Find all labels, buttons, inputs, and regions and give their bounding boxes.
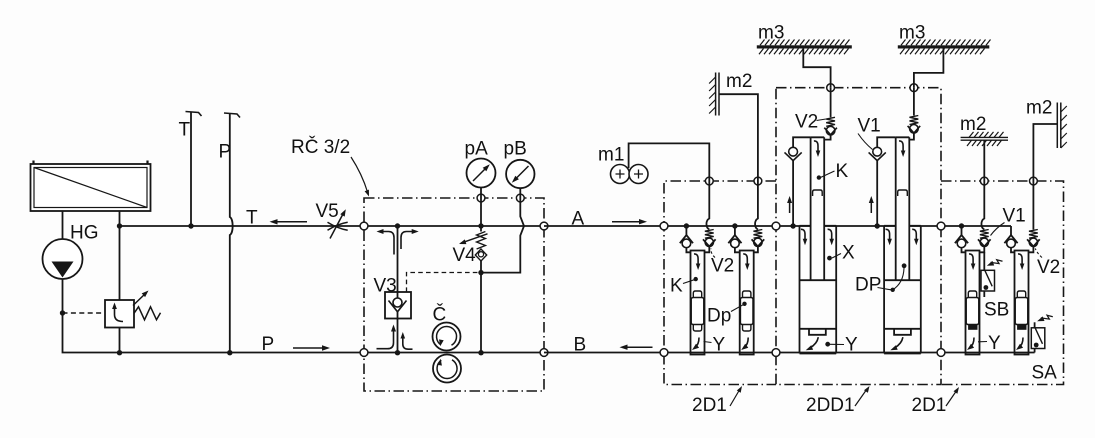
pump HG bbox=[43, 239, 83, 279]
svg-text:Y: Y bbox=[845, 335, 858, 356]
wire m3 #2 to port bbox=[914, 49, 944, 88]
flow elbow arrows (bottom pair) bbox=[377, 325, 413, 350]
check valve (plain) Dp cylinder bbox=[734, 226, 736, 235]
label X with leader bbox=[827, 243, 855, 264]
svg-text:2DD1: 2DD1 bbox=[806, 395, 855, 416]
flow arrow A (right) bbox=[612, 221, 640, 223]
svg-text:V2: V2 bbox=[795, 112, 818, 133]
check valve V2 (spring) K cylinder bbox=[706, 181, 709, 230]
label Y (2DD1) with leader bbox=[825, 335, 858, 356]
enclosure 2D1 (left) bbox=[664, 181, 776, 385]
pressure switch SB bbox=[981, 252, 1003, 297]
junction T riser bbox=[188, 223, 193, 228]
telescopic cylinder K/X (2DD1 left) bbox=[811, 137, 825, 280]
check valve (plain) 2DD1 left bbox=[785, 137, 811, 226]
cylinder K (2D1 left) bbox=[691, 251, 705, 355]
svg-text:X: X bbox=[842, 243, 855, 264]
label DP with leader bbox=[855, 263, 906, 295]
svg-text:2D1: 2D1 bbox=[912, 395, 947, 416]
svg-text:T: T bbox=[179, 120, 191, 141]
label K (2DD1) with leader bbox=[817, 161, 849, 182]
svg-text:RČ 3/2: RČ 3/2 bbox=[291, 136, 350, 158]
flow arrow up (2DD1 right) bbox=[870, 202, 872, 213]
cylinder Dp (2D1 left) bbox=[740, 251, 754, 355]
wall m3 #1 bbox=[757, 40, 852, 55]
junction T line start bbox=[117, 223, 122, 228]
T/A line through RČ block bbox=[364, 225, 544, 227]
label V1 (2D1 right) with leader bbox=[991, 206, 1026, 236]
label Y (2D1 right) with leader bbox=[978, 333, 1001, 354]
junction V4 bottom node bbox=[478, 270, 483, 275]
ports on enclosure edges bbox=[660, 222, 668, 230]
svg-text:V4: V4 bbox=[453, 245, 477, 266]
svg-text:Y: Y bbox=[713, 335, 726, 356]
label V2 (2D1 right) with leader bbox=[1035, 249, 1060, 279]
svg-text:DP: DP bbox=[855, 275, 881, 296]
relief valve bbox=[105, 291, 161, 353]
svg-text:SA: SA bbox=[1032, 363, 1058, 384]
wire m2 #4 to port bbox=[1033, 124, 1057, 181]
junction A (2DD1 left) bbox=[790, 223, 795, 228]
svg-text:V5: V5 bbox=[316, 201, 339, 222]
junction V4 top bbox=[478, 223, 483, 228]
svg-text:m1: m1 bbox=[598, 145, 624, 166]
enclosure 2DD1 bbox=[776, 88, 941, 385]
drive m1 (hand pump symbol) bbox=[611, 165, 649, 184]
flow arrow T (left) bbox=[276, 221, 307, 223]
check valve (spring) 2DD1 right bbox=[908, 88, 921, 140]
check valve V2 (spring) cyl 2 bbox=[1032, 181, 1034, 230]
junction P riser bbox=[227, 350, 232, 355]
flow arrow P (right) bbox=[293, 347, 323, 349]
label RČ 3/2 with leader bbox=[291, 136, 369, 197]
gauge pB (stem jogs over A line) bbox=[481, 160, 535, 273]
svg-text:P: P bbox=[262, 334, 275, 355]
svg-text:SB: SB bbox=[984, 300, 1009, 321]
svg-text:B: B bbox=[574, 335, 587, 356]
check valve V1 (plain) 2DD1 right bbox=[869, 137, 896, 226]
telescopic cylinder DP (2DD1 right) bbox=[896, 137, 910, 280]
cylinder 1 (2D1 right) bbox=[966, 251, 980, 355]
label 2D1 right with leader bbox=[912, 387, 960, 416]
P line (left) bbox=[105, 352, 364, 354]
junction A to check (Dp cyl) bbox=[732, 223, 737, 228]
ports RČ block bbox=[360, 222, 368, 230]
T line (left) bbox=[120, 225, 365, 227]
svg-text:Č: Č bbox=[433, 304, 447, 326]
label Y (2D1 left) with leader bbox=[704, 335, 726, 356]
pressure switch SA bbox=[1031, 315, 1053, 352]
svg-text:Y: Y bbox=[988, 333, 1001, 354]
flow arrow B (left) bbox=[626, 346, 653, 348]
gauge pA bbox=[467, 159, 496, 227]
enclosure 2D1 (right) bbox=[941, 181, 1064, 385]
throttle-check V4 bbox=[459, 226, 488, 273]
wire V4 node to B line bbox=[480, 273, 482, 353]
svg-text:2D1: 2D1 bbox=[692, 395, 727, 416]
wire tank to pump bbox=[62, 211, 64, 239]
svg-text:pB: pB bbox=[504, 139, 527, 160]
label K (2D1 left) with leader bbox=[670, 276, 698, 297]
wire V3 column bbox=[397, 226, 399, 292]
P/B line through RČ block bbox=[364, 352, 544, 354]
check valve V1 (spring) cyl 1 bbox=[981, 181, 984, 230]
wire m2 #3 to port bbox=[983, 140, 985, 181]
svg-text:Dp: Dp bbox=[707, 306, 731, 327]
wire tank to relief valve / T junction bbox=[119, 211, 121, 300]
enclosure RČ 3/2 (dash-dot) bbox=[364, 198, 544, 391]
check valve (spring) Dp cylinder bbox=[755, 181, 758, 230]
throttle V5 bbox=[328, 209, 348, 238]
wire m2 #1 to port bbox=[719, 94, 758, 181]
svg-text:V2: V2 bbox=[711, 256, 734, 277]
wire m3 #1 to port bbox=[803, 49, 830, 88]
check valve V3 bbox=[385, 292, 411, 319]
svg-text:m2: m2 bbox=[960, 114, 986, 135]
wall m2 #1 bbox=[709, 73, 719, 116]
pilot line (dashed) to relief valve bbox=[63, 312, 105, 314]
svg-text:V2: V2 bbox=[1037, 257, 1060, 278]
wall m2 #3 (horizontal) bbox=[961, 132, 1008, 146]
svg-text:K: K bbox=[836, 161, 849, 182]
B line bbox=[544, 352, 1035, 354]
check valve (plain) cyl 1 bbox=[961, 226, 963, 235]
flow arrow up (2DD1 left) bbox=[789, 202, 791, 213]
junction V4 column B bbox=[478, 350, 483, 355]
svg-text:T: T bbox=[246, 208, 258, 229]
label 2DD1 with leader bbox=[806, 386, 870, 416]
label Dp with leader bbox=[707, 302, 747, 327]
svg-text:m3: m3 bbox=[899, 23, 925, 44]
label V2 (2DD1) with leader bbox=[795, 112, 826, 133]
svg-text:V3: V3 bbox=[374, 276, 397, 297]
flow divider Č bbox=[433, 323, 462, 383]
junction V3 bottom bbox=[395, 350, 400, 355]
wire pump to P line bbox=[63, 279, 106, 353]
tank/reservoir bbox=[31, 161, 151, 212]
svg-text:pA: pA bbox=[465, 139, 489, 160]
P riser with plug (jog over T line) bbox=[224, 113, 240, 353]
junction A to check (K cyl) bbox=[684, 223, 689, 228]
junction pump drain bbox=[60, 310, 65, 315]
cylinder 2 (2D1 right) bbox=[1015, 251, 1029, 355]
svg-text:K: K bbox=[670, 276, 683, 297]
svg-text:m2: m2 bbox=[726, 71, 752, 92]
svg-text:HG: HG bbox=[70, 223, 99, 244]
pilot line (dashed) V3 to V4 node bbox=[407, 273, 481, 293]
label 2D1 left with leader bbox=[692, 386, 742, 416]
label V1 (2DD1) with leader bbox=[858, 116, 881, 150]
wall m3 #2 bbox=[898, 40, 991, 55]
wire m1 to port bbox=[629, 143, 710, 181]
label V2 (2D1 left) bbox=[711, 249, 734, 277]
svg-text:V1: V1 bbox=[1003, 206, 1026, 227]
svg-text:A: A bbox=[572, 209, 585, 230]
svg-text:P: P bbox=[219, 142, 232, 163]
check valve (plain) K cylinder bbox=[685, 226, 687, 235]
junction A to check (2D1 right, cyl 1) bbox=[959, 223, 964, 228]
svg-text:V1: V1 bbox=[858, 116, 881, 137]
junction V3 top bbox=[395, 223, 400, 228]
check valve (plain) cyl 2 bbox=[1010, 226, 1012, 235]
svg-text:m2: m2 bbox=[1026, 98, 1052, 119]
check valve V2 (spring) 2DD1 left bbox=[824, 88, 837, 140]
wall m2 #4 bbox=[1057, 103, 1067, 149]
junction A (2DD1 right) bbox=[875, 223, 880, 228]
T riser with plug bbox=[186, 112, 202, 227]
svg-text:m3: m3 bbox=[758, 23, 784, 44]
A line bbox=[544, 225, 1011, 227]
flow elbow arrows (top pair) bbox=[377, 229, 419, 255]
junction relief to P line bbox=[117, 350, 122, 355]
